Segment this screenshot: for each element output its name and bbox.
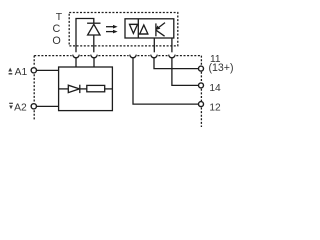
module label TCO [52,12,62,47]
svg-text:(13+): (13+) [209,62,234,74]
input network box [59,67,113,111]
wire: cup x154 down and right to terminal 11 [154,58,199,69]
wire: diode leg down to pin [93,35,95,52]
relay module enclosure (dashed) [69,13,178,46]
wire: cup x133 down and right to terminal 12 [133,58,199,104]
LED D1 (input diode, pointing up) [87,22,100,24]
socket outline: right border [200,56,202,127]
wire: input loop [76,19,94,53]
terminal 14 circle [199,83,204,88]
socket outline: left border [33,56,35,120]
output block U1 box [125,19,174,38]
socket contact cup x154 [151,55,157,58]
terminal 11 circle [199,66,204,71]
switch actuation symbol K [155,23,157,36]
socket contact cup x133 [130,55,136,58]
svg-text:A1: A1 [15,67,28,78]
socket outline (dashed): top border [34,55,201,57]
triac left triangle (down) [130,24,138,33]
wire: A1 to input box [37,69,59,71]
resistor R1 [87,85,105,91]
wire: box left to diode [59,88,69,90]
triac lower bar [138,33,148,35]
triac right triangle (up) [140,25,148,34]
svg-text:O: O [52,35,60,47]
triac symbol stem [137,19,139,38]
triac upper bar [129,23,138,25]
wire: cup x76 to input box [75,58,77,67]
socket contact cup x76 [73,55,79,58]
terminal A1 circle [31,68,36,73]
wire: A2 to input box [37,105,59,107]
svg-text:12: 12 [209,102,221,113]
pin: output left [153,38,155,52]
terminal A2 circle [31,104,36,109]
wire: cup x94 to input box [93,58,95,67]
polarity mark A2 (minus, bar over triangle down) [9,103,13,109]
wire: cup x172 down and right to terminal 14 [172,58,199,86]
svg-text:T: T [56,12,63,23]
terminal 12 circle [199,102,204,107]
polarity mark A1 (plus, triangle up over bar) [8,68,12,75]
socket contact cup x94 [91,55,97,58]
wire: diode to resistor [80,88,87,90]
pin: output right [171,38,173,52]
socket contact cup x172 [169,55,175,58]
svg-text:C: C [52,23,60,35]
diode D2 (pointing right) [68,85,79,92]
opto coupling arrows [106,26,113,28]
svg-text:14: 14 [209,83,221,94]
wire: resistor to box right [105,88,113,90]
svg-text:A2: A2 [14,103,27,114]
